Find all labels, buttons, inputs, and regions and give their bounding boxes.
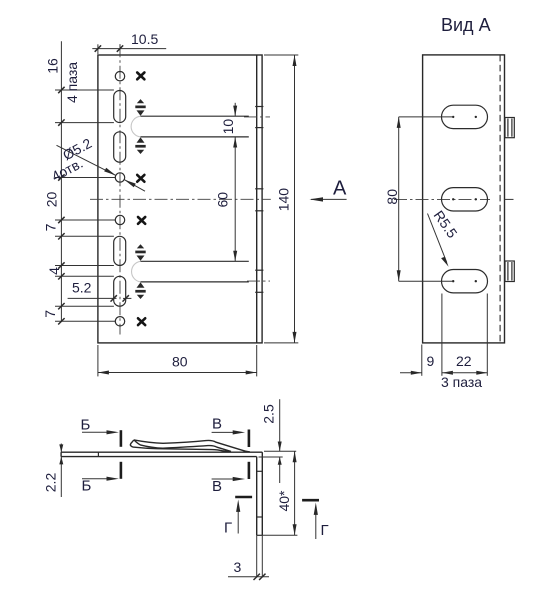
tongue hook [130, 440, 134, 447]
view A dimension text 9 [427, 353, 435, 369]
horizontal slot bottom edges [141, 261, 249, 282]
svg-text:В: В [212, 478, 222, 495]
dimension text 2.5 [260, 404, 276, 424]
dimension text 7 upper [43, 223, 59, 231]
view letter A [333, 178, 347, 200]
dimension text 20 [44, 192, 60, 208]
view A dimension 80 [397, 117, 453, 281]
dimension 5.2 slot width [68, 295, 132, 301]
press mark above top slot [135, 99, 145, 116]
section B bottom mark [82, 462, 121, 495]
hole 3 [115, 215, 124, 224]
view A slot bottom [442, 270, 488, 293]
x mark hole 3 [138, 217, 145, 224]
view A bottom extension lines [422, 294, 488, 376]
svg-text:10: 10 [220, 119, 236, 135]
svg-text:2.2: 2.2 [43, 473, 59, 493]
svg-text:3: 3 [234, 559, 242, 575]
front view flange bend line [256, 55, 258, 343]
flange slot tick middle pair [255, 189, 263, 211]
svg-text:10.5: 10.5 [131, 31, 158, 47]
profile leg inner edge [256, 457, 258, 536]
press mark above bottom slot [135, 244, 145, 261]
view A dimension 22 [442, 371, 487, 375]
dimension 10 slot height [233, 103, 237, 116]
section B top mark [81, 417, 121, 447]
radius text R5.5 [431, 207, 461, 241]
hole 1 [115, 72, 124, 81]
svg-text:Б: Б [81, 417, 91, 434]
note text 4 paza [64, 62, 80, 103]
x mark hole 1 [137, 73, 144, 80]
svg-text:9: 9 [427, 353, 435, 369]
svg-text:7: 7 [43, 223, 59, 231]
vertical slot 4 [114, 276, 126, 306]
section V bottom mark [212, 462, 249, 495]
view A tab bottom [505, 261, 514, 282]
chain extension slot3 bottom [55, 262, 114, 268]
svg-text:80: 80 [172, 354, 188, 370]
flange slot tick bottom pair [255, 270, 263, 292]
chain extension slot4 top [55, 273, 114, 279]
view A slot top [442, 105, 488, 128]
dimension text 3 [234, 559, 242, 575]
view A slot middle [442, 188, 488, 211]
dimension text 16 [45, 58, 61, 74]
svg-text:3 паза: 3 паза [441, 374, 482, 390]
chain extension hole3 [55, 217, 116, 223]
dimension 140 [264, 55, 298, 343]
vertical slot 1 [114, 91, 126, 123]
profile leg tick 2 [257, 516, 263, 518]
dimension 3 extensions [257, 535, 263, 577]
horizontal slot top faint arc [131, 116, 140, 137]
chain extension slot4 bottom [55, 303, 114, 309]
view A centerline [394, 198, 514, 200]
dimension text 4 [46, 267, 62, 275]
chain extension slot1 top [55, 87, 114, 93]
section V top mark [212, 416, 249, 447]
view arrow A [309, 197, 346, 201]
press mark below top slot [135, 137, 145, 154]
view A outline [423, 55, 505, 343]
svg-text:Г: Г [321, 522, 329, 539]
tongue lower edge [134, 440, 231, 452]
svg-text:5.2: 5.2 [72, 280, 92, 296]
dimension 2.2 [59, 444, 63, 498]
dimension 3 line [228, 574, 269, 580]
tongue side edge [133, 447, 230, 452]
chain extension hole4 [55, 318, 116, 324]
svg-text:16: 16 [45, 58, 61, 74]
dimension 60 line [233, 137, 237, 261]
left chain dimension line [60, 41, 62, 322]
diameter leader line [57, 145, 146, 191]
view A tab top [505, 118, 514, 138]
svg-text:Г: Г [224, 520, 232, 537]
dimension 2.5 [259, 399, 297, 483]
horizontal slot top edges [141, 116, 249, 137]
radius leader R5.5 [428, 214, 449, 267]
dimension text 10.5 [131, 31, 158, 47]
section G left mark [224, 497, 252, 537]
main horizontal centerline [90, 198, 271, 200]
profile plate division [97, 452, 99, 456]
view A note 3 paza [441, 374, 482, 390]
view A dimension 9 [400, 371, 453, 375]
svg-text:4: 4 [46, 267, 62, 275]
vertical slot 2 [114, 132, 126, 162]
dimension 10.5 [92, 44, 166, 54]
view A fold dashed line [499, 55, 501, 343]
view A title [441, 15, 491, 35]
view A dimension text 80 [384, 189, 400, 205]
dimension 80 front [98, 345, 257, 376]
x mark hole 4 [138, 318, 145, 325]
profile leg bottom [257, 534, 263, 536]
svg-text:20: 20 [44, 192, 60, 208]
dimension text 140 [276, 188, 292, 212]
svg-text:В: В [212, 416, 222, 433]
hole 2 [115, 173, 124, 182]
svg-text:22: 22 [456, 353, 472, 369]
front view plate outline [98, 55, 262, 343]
hole vertical centerline [119, 44, 121, 334]
leader text 4 otv [49, 155, 86, 185]
vertical slot 3 [114, 236, 126, 265]
hole 4 [115, 317, 124, 326]
svg-text:4 паза: 4 паза [64, 62, 80, 103]
svg-text:А: А [333, 178, 347, 200]
section G right mark [302, 500, 329, 539]
profile leg tick 1 [257, 470, 263, 472]
dimension text 2.2 [43, 473, 59, 493]
profile plate bottom edge [61, 456, 257, 458]
svg-text:60: 60 [215, 192, 231, 208]
svg-text:80: 80 [384, 189, 400, 205]
horizontal slot bottom faint arc [132, 261, 141, 282]
svg-text:2.5: 2.5 [260, 404, 276, 424]
chain extension hole2 [55, 174, 116, 180]
view A dimension text 22 [456, 353, 472, 369]
press mark below bottom slot [135, 282, 145, 299]
dimension 40 [262, 451, 297, 535]
svg-text:R5.5: R5.5 [431, 207, 461, 241]
profile leg outer edge [261, 452, 263, 535]
x mark hole 2 [137, 175, 144, 182]
svg-text:140: 140 [276, 188, 292, 212]
profile plate top edge [61, 451, 262, 453]
svg-text:7: 7 [42, 310, 58, 318]
dimension text 60 [215, 192, 231, 208]
flange slot centerline bottom [247, 280, 270, 282]
flange slot centerline top [244, 116, 270, 118]
svg-text:40*: 40* [276, 490, 292, 512]
chain extension slot1 bottom [55, 119, 114, 125]
profile plate left end [60, 452, 62, 456]
svg-text:Вид А: Вид А [441, 15, 491, 35]
flange slot tick top pair [255, 107, 263, 128]
chain extension slot3 top [55, 233, 114, 239]
dimension text 5.2 [72, 280, 92, 296]
dimension text 40 [276, 490, 292, 512]
svg-text:Б: Б [82, 478, 92, 495]
dimension text 80 front [172, 354, 188, 370]
tongue top edge [134, 440, 250, 452]
leader text diameter 5.2 [60, 135, 94, 163]
dimension text 10 [220, 119, 236, 135]
dimension text 7 lower [42, 310, 58, 318]
